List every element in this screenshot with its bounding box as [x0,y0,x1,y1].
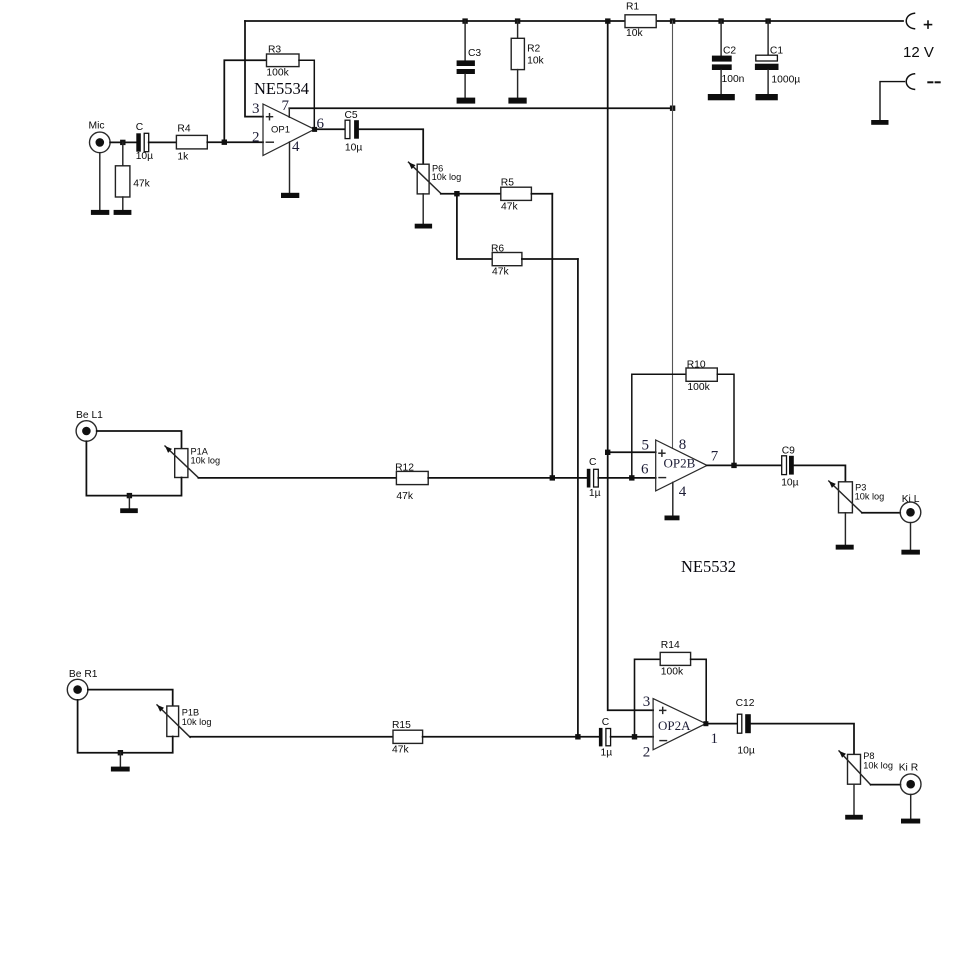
svg-text:47k: 47k [501,201,518,212]
svg-text:1k: 1k [177,152,189,163]
svg-text:10k log: 10k log [863,760,893,770]
svg-text:C3: C3 [468,48,481,59]
svg-text:C: C [589,457,597,468]
op-amp OP2A triangle [653,699,706,750]
wire cap C to OP2B pin 6 [598,477,655,479]
wire P1A wiper to R12 [198,477,396,479]
OP2A minus sign [660,740,667,742]
wire P1B wiper to R15 [190,736,393,738]
node junction ground tap Be L1 loop [127,493,132,498]
resistor R6 [457,194,578,278]
wire OP1 output to C5 [315,128,346,130]
node junction R10 leg on output [731,463,736,468]
wire R6 bus down to right mix node [577,259,579,737]
svg-text:1000µ: 1000µ [771,74,800,85]
potentiometer P3 [829,481,884,513]
OP2B plus sign [659,450,665,456]
resistor 47k mic load [115,142,150,210]
capacitor C3 [457,21,482,98]
node junction OP2A output [703,721,708,726]
svg-text:NE5534: NE5534 [254,79,309,98]
svg-text:10k: 10k [527,56,544,67]
svg-text:Ki L: Ki L [902,494,920,505]
node junction C1 on rail [765,18,770,23]
ground minus terminal [871,120,888,125]
svg-text:10k log: 10k log [182,717,212,727]
resistor R14 feedback loop [635,640,707,737]
svg-text:R2: R2 [527,44,540,55]
ground C1 [756,94,778,100]
node junction R6 bus on right mix wire [575,734,580,739]
resistor R2 [511,21,544,98]
node junction ground tap Be R1 loop [118,750,123,755]
ground Ki L [901,523,920,555]
svg-text:R1: R1 [626,2,639,13]
OP1 minus sign [266,141,273,143]
wire minus terminal to ground [880,82,905,120]
ground Be L1 loop [120,496,138,513]
svg-text:100k: 100k [266,68,289,79]
node junction feedback tap left [629,475,634,480]
svg-text:10k log: 10k log [855,492,885,502]
node junction +12 bus on rail [670,18,675,23]
svg-text:10µ: 10µ [345,143,362,154]
wire P3 wiper to Ki L [862,512,900,514]
ground OP1 pin 4 [281,193,299,198]
svg-text:47k: 47k [392,744,409,755]
svg-text:10µ: 10µ [781,477,798,488]
svg-text:NE5532: NE5532 [681,557,736,576]
wire OP2A output to C12 [706,723,738,725]
OP1 pin 4 stub to ground [289,142,291,193]
svg-text:47k: 47k [492,267,509,278]
svg-text:4: 4 [679,484,687,500]
ground C3 [457,98,476,104]
svg-text:1: 1 [711,731,719,747]
svg-text:47k: 47k [133,179,150,190]
capacitor C12 polarized [736,698,755,757]
resistor R4 [176,124,207,163]
connector Ki L [900,494,921,523]
svg-text:1µ: 1µ [589,488,601,499]
svg-text:OP1: OP1 [271,124,290,135]
node junction OP1 output [312,127,317,132]
svg-text:100k: 100k [687,382,710,393]
wire R12 to cap C [428,477,587,479]
svg-text:2: 2 [643,745,651,761]
ground 47k [114,210,132,215]
node junction P6 wiper R5 R6 [454,191,459,196]
ground C2 [708,94,735,100]
svg-text:7: 7 [282,98,290,114]
svg-text:C: C [136,122,144,133]
wire cap C to R4 [149,141,177,143]
node junction C2 on rail [718,18,723,23]
resistor R5 [457,177,552,212]
wire R15 to cap C lower [423,736,599,738]
node junction feedback tap right [632,734,637,739]
wire C9 to P3 top [794,465,846,481]
wire +12V bus down to OP2B pin 8 [672,21,674,448]
svg-text:OP2B: OP2B [664,455,696,470]
svg-text:7: 7 [711,449,719,465]
wire +12V rail OP1 pin7 feed [289,107,672,109]
svg-text:10k: 10k [626,28,643,39]
potentiometer P1B [157,705,211,737]
wire C5 to P6 [359,129,423,164]
wire Be R1 to P1B top [88,690,173,706]
svg-text:1µ: 1µ [601,747,613,758]
connector minus terminal [906,74,914,90]
ground P6 [415,194,432,229]
svg-text:2: 2 [252,129,260,145]
node junction R2 on bias rail [515,18,520,23]
wire C12 to P8 top [751,724,854,755]
svg-text:5: 5 [642,437,650,453]
svg-text:4: 4 [292,139,300,155]
svg-text:12 V: 12 V [903,44,934,61]
wire Mic to cap C [110,141,136,143]
node junction bias bus on rail [605,18,610,23]
wire P1A bottom loop to Be L1 sleeve [86,441,181,495]
node junction bias bus pin5 [605,450,610,455]
svg-text:Mic: Mic [89,120,105,131]
connector Ki R [899,763,921,795]
capacitor C1 polarized [755,21,800,94]
svg-text:10µ: 10µ [136,151,153,162]
svg-text:100n: 100n [722,74,745,85]
wire bias bus down to OP2A pin 3 [608,21,653,710]
svg-text:C12: C12 [736,698,755,709]
svg-text:C9: C9 [782,445,795,456]
ground Be R1 loop [111,753,130,772]
wire top bias rail left segment [245,20,625,22]
resistor R1 [625,2,656,39]
wire R5 leg down to left mix node [551,194,553,478]
node junction R5 leg on left mix wire [550,475,555,480]
OP2A plus sign [660,707,666,713]
node minus dashes [928,81,939,83]
OP1 pin 7 stub [288,108,290,117]
svg-text:100k: 100k [661,667,684,678]
capacitor C 1u left channel [587,457,601,499]
svg-text:OP2A: OP2A [658,718,691,733]
potentiometer P6 [409,162,462,194]
capacitor C2 [712,21,745,94]
OP2B pin 4 stub to ground [672,482,674,515]
wire P6 wiper to node [441,193,457,195]
capacitor C 1u right channel [599,717,612,758]
connector Mic [89,120,111,152]
wire bias rail drop to OP1 pin3 [245,21,263,117]
potentiometer P1A [165,446,220,478]
svg-text:3: 3 [643,694,651,710]
svg-text:R12: R12 [395,463,414,474]
OP1 plus sign [267,114,273,120]
node junction mic 47k tap [120,140,125,145]
svg-text:3: 3 [252,101,260,117]
resistor R3 feedback loop [224,44,314,142]
svg-text:R4: R4 [177,124,190,135]
svg-text:Ki R: Ki R [899,763,918,774]
svg-text:R3: R3 [268,44,281,55]
wire +12V rail right segment [656,20,903,22]
ground P3 [836,513,854,550]
svg-text:R14: R14 [661,640,680,651]
wire P8 wiper to Ki R [871,784,901,786]
wire R4 to OP1 pin 2 [207,141,263,143]
ground R2 [508,98,526,104]
capacitor C 10u mic input [136,122,153,162]
wire cap C to OP2A pin 2 [611,736,654,738]
node junction pin7 rail and +12 bus [670,106,675,111]
ground Ki R [901,795,920,824]
capacitor C5 polarized [345,110,363,154]
svg-text:C5: C5 [345,110,358,121]
svg-text:6: 6 [641,462,649,478]
svg-text:R15: R15 [392,720,411,731]
op-amp OP1 triangle [263,104,315,156]
op-amp OP2B triangle [656,440,707,491]
svg-text:10k log: 10k log [191,456,221,466]
svg-text:10k log: 10k log [432,172,462,182]
resistor R12 [395,463,428,502]
node plus sign [925,21,932,28]
resistor R15 [392,720,423,755]
connector Be L1 [76,410,103,442]
svg-text:Be L1: Be L1 [76,410,103,421]
node junction C3 on bias rail [462,18,467,23]
wire OP2B output to C9 [707,464,782,466]
capacitor C9 polarized [781,445,798,488]
svg-text:R5: R5 [501,177,514,188]
node junction R3 tap on pin2 wire [222,140,227,145]
svg-text:Be R1: Be R1 [69,669,98,680]
resistor R10 feedback loop [632,359,734,478]
potentiometer P8 [839,751,893,785]
connector Be R1 [67,669,97,700]
ground OP2B pin 4 [665,516,680,521]
OP2B minus sign [659,477,666,479]
svg-text:10µ: 10µ [737,746,754,757]
wire P1B bottom loop to Be R1 sleeve [78,700,173,753]
svg-text:C2: C2 [723,46,736,57]
ground Mic [91,153,109,215]
connector +12V plus terminal [906,13,914,29]
svg-text:C: C [602,717,610,728]
ground P8 [845,784,863,819]
svg-text:47k: 47k [396,491,413,502]
svg-text:R10: R10 [687,359,706,370]
wire OP2B pin 5 from bias bus [608,451,656,453]
svg-text:C1: C1 [770,46,783,57]
wire Be L1 to P1A top [97,431,182,449]
svg-text:R6: R6 [491,244,504,255]
svg-text:8: 8 [679,437,687,453]
